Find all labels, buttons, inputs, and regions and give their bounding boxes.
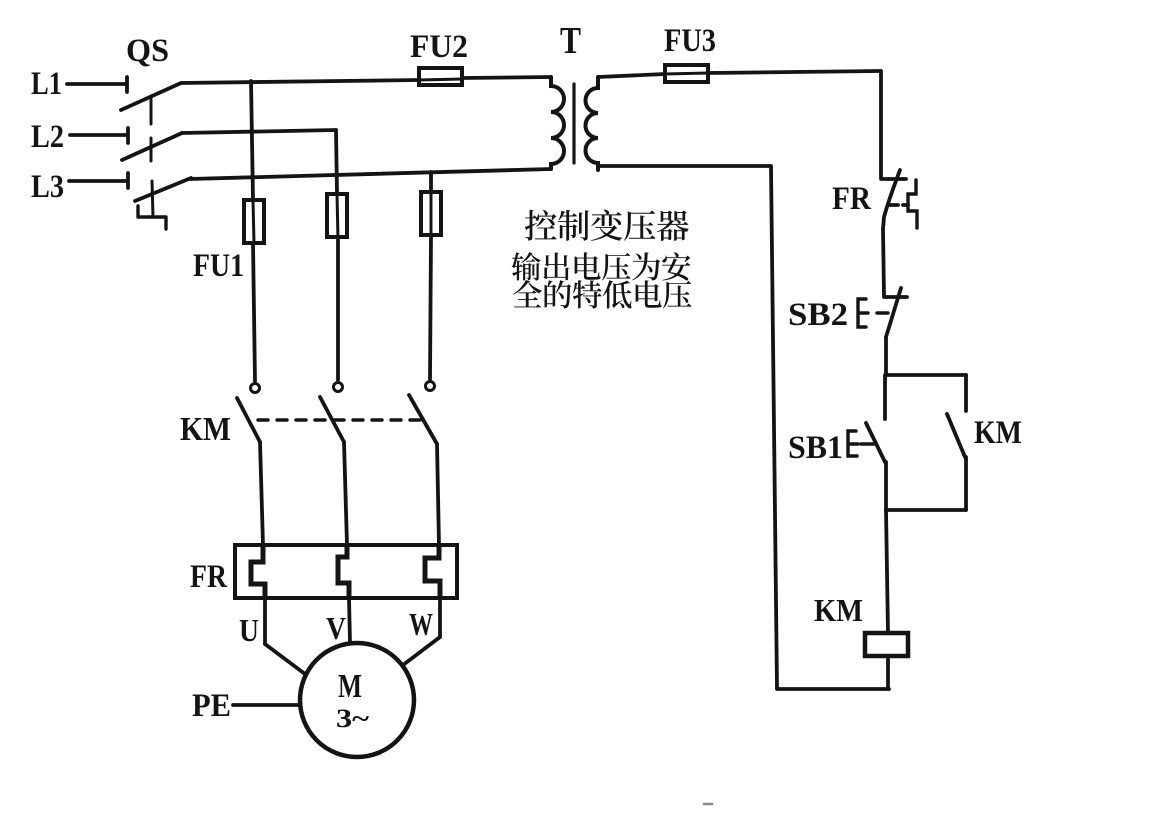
wire L3 bus to transformer primary bottom	[190, 169, 551, 179]
contact FR NC blade	[883, 170, 900, 229]
svg-text:SB1: SB1	[788, 430, 843, 466]
node L3 terminal tick	[126, 173, 130, 188]
wire pole3 to FR box	[437, 444, 439, 545]
svg-text:T: T	[560, 20, 581, 62]
wire coil to bottom	[886, 656, 890, 689]
wire secondary top to FU3	[598, 74, 665, 77]
wire tap 3 from L3	[430, 172, 431, 379]
fuse FU1 b	[327, 194, 347, 237]
wire tap1 through fuse	[253, 200, 254, 243]
contactor KM pole3 terminal circle	[426, 382, 435, 391]
text 控制变压器	[525, 210, 689, 241]
coil KM	[865, 633, 908, 656]
contact SB1 blade	[866, 423, 885, 462]
contactor KM pole3 blade	[409, 395, 437, 444]
wire control left rail	[771, 166, 777, 688]
wire tap 2 from L2 corner	[336, 130, 338, 380]
svg-text:QS: QS	[126, 33, 169, 69]
svg-text:PE: PE	[192, 688, 231, 724]
speck artifact	[704, 803, 712, 806]
node L2 terminal tick	[126, 128, 130, 143]
svg-text:3~: 3~	[336, 704, 370, 733]
svg-text:FU2: FU2	[410, 29, 468, 65]
wire V to motor	[349, 598, 350, 643]
wire L2 lead	[70, 133, 127, 137]
button SB1 actuator	[848, 431, 874, 456]
contact KM aux blade	[947, 414, 965, 457]
fuse FU1 a	[244, 200, 264, 243]
wire pole1 to FR box	[260, 442, 263, 545]
node L1 terminal tick	[125, 77, 129, 92]
wire L1 bus	[181, 80, 419, 83]
transformer T primary winding	[551, 77, 564, 169]
svg-text:FR: FR	[190, 559, 228, 595]
wire branch down to KM aux	[964, 375, 968, 411]
fuse FU2	[419, 68, 462, 85]
svg-text:FU1: FU1	[193, 248, 244, 284]
svg-text:V: V	[326, 610, 346, 646]
wire tap2 through fuse	[337, 194, 338, 240]
fuse FU1 c	[421, 192, 441, 235]
wire L2 bus	[182, 130, 336, 133]
wire pole2 to FR box	[344, 442, 347, 545]
svg-text:FU3: FU3	[664, 23, 716, 59]
contact SB2 blade	[886, 288, 901, 337]
contactor KM pole2 blade	[320, 397, 344, 442]
svg-text:SB2: SB2	[788, 297, 848, 333]
relay FR heater 1	[251, 545, 265, 598]
wire KM aux down	[964, 457, 968, 510]
chinese annotation text	[512, 210, 692, 309]
wire junction branch right	[886, 373, 966, 377]
contactor KM pole1 blade	[237, 398, 260, 442]
svg-text:KM: KM	[814, 592, 863, 628]
wire down to coil	[886, 510, 888, 633]
wire SB1 down	[884, 462, 888, 510]
wire secondary bottom rail	[598, 164, 770, 168]
wire junction to SB1	[883, 375, 887, 419]
wire W to motor	[403, 598, 440, 665]
wire tap 1 from L1	[251, 81, 255, 381]
wire right drop to FR	[879, 71, 883, 177]
wire control bottom rail	[777, 687, 889, 691]
wire FR to SB2	[883, 229, 884, 296]
contactor KM linkage dashed	[258, 418, 423, 421]
contact SB2 tick	[884, 295, 907, 299]
svg-text:U: U	[239, 612, 259, 648]
svg-text:L1: L1	[31, 66, 62, 102]
svg-text:FR: FR	[832, 181, 872, 217]
svg-text:W: W	[409, 606, 433, 642]
wire FU3 to right corner	[708, 71, 880, 73]
svg-text:L3: L3	[31, 169, 64, 205]
contact FR NC middle tick	[889, 203, 908, 207]
wire L3 lead	[69, 179, 127, 183]
wire SB2 to junction	[884, 337, 888, 375]
wire tap3 through fuse	[430, 192, 433, 237]
transformer core	[572, 84, 575, 163]
relay FR box	[235, 545, 457, 598]
svg-text:M: M	[338, 668, 362, 705]
wire through FU3	[665, 73, 708, 74]
svg-text:KM: KM	[180, 411, 231, 448]
text 全的特低电压	[513, 280, 692, 308]
fuse FU3	[665, 65, 708, 82]
switch QS pole 3 blade	[135, 178, 191, 201]
relay FR heater 2	[338, 545, 349, 598]
wire L1 lead	[67, 82, 126, 86]
button SB2 actuator	[858, 299, 888, 327]
switch QS pole 2 blade	[122, 133, 182, 160]
svg-text:L2: L2	[31, 119, 64, 155]
wire through FU2	[419, 79, 462, 80]
wire U to motor	[265, 598, 305, 674]
motor M circle	[300, 643, 414, 757]
svg-text:KM: KM	[974, 415, 1022, 451]
text 输出电压为安	[512, 252, 691, 281]
switch QS pole 1 blade	[121, 83, 181, 110]
contactor KM pole1 terminal circle	[251, 384, 260, 393]
contactor KM pole2 terminal circle	[334, 383, 343, 392]
switch QS linkage dashed	[151, 96, 153, 217]
contact FR NC tick	[881, 177, 906, 181]
contact FR NC zigzag	[908, 180, 917, 228]
relay FR heater 3	[425, 545, 440, 598]
wire PE lead	[233, 703, 300, 707]
transformer T secondary winding	[586, 77, 599, 170]
wire L1 bus to transformer	[462, 77, 551, 78]
wire aux bottom joining	[886, 508, 966, 512]
switch QS handle hook	[138, 206, 166, 229]
